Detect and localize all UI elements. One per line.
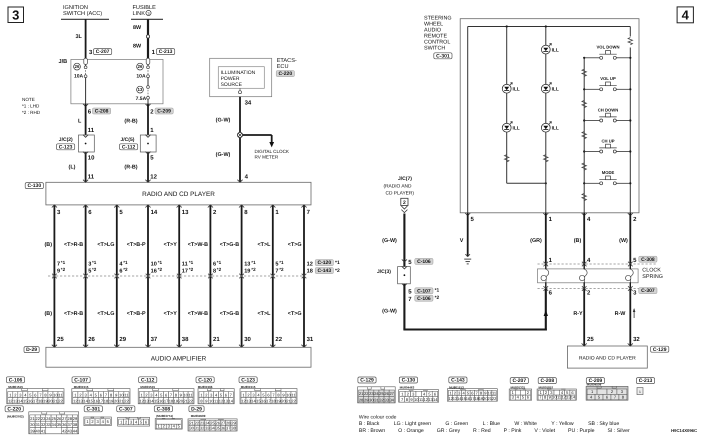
svg-text:13: 13: [138, 87, 143, 92]
svg-text:Wire colour code: Wire colour code: [359, 414, 397, 420]
circle node inside ETACS: [239, 91, 242, 94]
svg-text:C-213: C-213: [639, 378, 653, 384]
clock spring crossing marks top: [544, 262, 549, 264]
wire radio pin 1 to amplifier pin 22 (<T>L): [272, 205, 274, 347]
svg-text:1: 1: [639, 390, 641, 394]
svg-text:8W: 8W: [133, 25, 142, 31]
svg-text:<T>G-B: <T>G-B: [220, 242, 240, 248]
svg-text:(B): (B): [574, 238, 582, 244]
svg-text:16: 16: [151, 269, 157, 275]
connector pinout C-106: [6, 377, 24, 384]
svg-text:31: 31: [307, 336, 314, 343]
svg-text:*1: *1: [435, 288, 440, 294]
svg-text:*2: *2: [279, 267, 284, 272]
junction mark at C-120/C-143 crossing: [177, 274, 182, 276]
resistor ladder segment 3: [582, 132, 586, 139]
wire radio pin 2 to amplifier pin 21 (<T>W-B): [209, 205, 211, 347]
svg-text:25: 25: [57, 336, 64, 343]
svg-text:<T>W-B: <T>W-B: [188, 311, 208, 317]
svg-text:<T>LG: <T>LG: [97, 242, 114, 248]
illumination lamp ILL left lower: [502, 123, 511, 132]
svg-text:(G-W): (G-W): [216, 152, 231, 158]
svg-text:C-107: C-107: [417, 288, 431, 294]
svg-text:*1: *1: [123, 260, 128, 265]
illumination lamp ILL right top: [541, 45, 550, 54]
svg-text:*2: *2: [217, 267, 222, 272]
svg-text:MU804463: MU804463: [400, 385, 415, 389]
svg-text:BR : Brown O : Orange: BR : Brown O : Orange GR : Grey R : Red …: [359, 428, 630, 434]
svg-text:(L): (L): [69, 164, 76, 170]
fuse 26 10A (left): [85, 65, 87, 67]
svg-text:22: 22: [291, 398, 296, 403]
wire (G-W) lower run to clock spring: [403, 284, 405, 330]
svg-text:C-112: C-112: [122, 144, 136, 150]
svg-text:C-209: C-209: [157, 109, 171, 115]
wire R-W clock spring pin3 to radio pin 32: [629, 289, 631, 347]
svg-text:R-Y: R-Y: [573, 311, 583, 317]
svg-text:*2: *2: [251, 267, 256, 272]
svg-text:SWITCH (ACC): SWITCH (ACC): [63, 10, 102, 17]
svg-text:34: 34: [245, 100, 252, 107]
connector pinout C-120: [196, 377, 214, 384]
switch MODE: [583, 170, 631, 185]
svg-text:MODE: MODE: [602, 170, 615, 175]
resistor ladder bottom segment: [582, 193, 586, 200]
svg-text:26: 26: [88, 336, 95, 343]
svg-text:C-106: C-106: [9, 377, 23, 383]
svg-text:C-207: C-207: [512, 378, 526, 384]
svg-text:12: 12: [307, 261, 313, 267]
svg-text:*1: *1: [158, 260, 163, 265]
svg-text:CD PLAYER): CD PLAYER): [386, 191, 415, 197]
svg-text:D-29: D-29: [191, 406, 202, 412]
connector pinout C-112: [139, 377, 157, 384]
svg-text:V: V: [460, 238, 464, 244]
connector C-208 pin 6: [85, 104, 87, 183]
svg-text:VOL UP: VOL UP: [600, 76, 616, 81]
illumination lamp ILL right middle: [541, 84, 550, 93]
svg-text:<T>G: <T>G: [288, 242, 302, 248]
clock spring coil 1: [545, 264, 547, 269]
svg-text:<T>G-B: <T>G-B: [220, 311, 240, 317]
svg-text:C-143: C-143: [317, 268, 331, 274]
svg-text:C-308: C-308: [641, 257, 655, 263]
svg-text:(R-B): (R-B): [124, 164, 137, 170]
fuse 13 7.5A: [147, 78, 149, 86]
svg-text:ILL: ILL: [513, 87, 520, 93]
svg-text:22: 22: [124, 398, 129, 403]
svg-text:7.5A: 7.5A: [136, 96, 147, 102]
svg-text:34: 34: [389, 398, 394, 403]
svg-text:*1: *1: [92, 260, 97, 265]
svg-text:ILL: ILL: [552, 48, 559, 54]
svg-text:17: 17: [182, 269, 188, 275]
svg-text:10A: 10A: [136, 74, 146, 80]
inline connector circle on 8W wire: [146, 35, 149, 38]
radio and CD player box (left): [46, 182, 311, 205]
svg-text:RADIO AND CD PLAYER: RADIO AND CD PLAYER: [579, 355, 636, 361]
svg-text:C-301: C-301: [86, 406, 100, 412]
junction mark at C-120/C-143 crossing: [271, 274, 276, 276]
svg-text:7: 7: [275, 269, 278, 275]
svg-text:22: 22: [188, 398, 193, 403]
svg-text:(RADIO AND: (RADIO AND: [384, 184, 413, 190]
svg-text:R-W: R-W: [615, 311, 627, 317]
pin 5 rail and illumination top rail: [467, 27, 469, 213]
svg-text:NOTE: NOTE: [22, 97, 35, 102]
svg-text:MU804508: MU804508: [587, 383, 602, 387]
svg-text:*2: *2: [435, 295, 440, 301]
illumination lamp ILL right lower: [541, 123, 550, 132]
svg-text:AUDIO AMPLIFIER: AUDIO AMPLIFIER: [151, 355, 207, 362]
svg-text:(B): (B): [45, 311, 53, 317]
svg-text:C-301: C-301: [436, 53, 450, 59]
svg-text:5: 5: [88, 269, 91, 275]
svg-text:*1: *1: [61, 260, 66, 265]
left LED column wire: [506, 27, 508, 184]
steering wheel switch box: [460, 19, 639, 213]
wire 3L ignition to J/B: [85, 19, 87, 58]
svg-text:38: 38: [73, 422, 78, 427]
svg-text:*1: *1: [335, 260, 340, 266]
svg-text:C-307: C-307: [119, 406, 133, 412]
svg-text:B : Black LG : Light: B : Black LG : Light green G : Green L :…: [359, 421, 619, 427]
svg-text:C-112: C-112: [141, 377, 155, 383]
svg-text:DIGITAL CLOCK: DIGITAL CLOCK: [255, 149, 290, 154]
connector C-209 pin 2: [147, 104, 149, 183]
svg-text:9: 9: [57, 269, 60, 275]
switch CH DOWN: [583, 107, 631, 122]
switch box exit arrows and pins 5 1 4 2: [465, 213, 470, 216]
svg-text:C-213: C-213: [159, 49, 173, 55]
svg-text:14: 14: [151, 209, 158, 216]
svg-text:(B): (B): [45, 242, 53, 248]
svg-text:4: 4: [682, 8, 690, 23]
joint connector J/C(3): [398, 267, 411, 284]
ETACS-ECU box: [210, 58, 272, 96]
svg-text:CH DOWN: CH DOWN: [598, 107, 618, 112]
svg-text:J/C(7): J/C(7): [398, 176, 412, 182]
svg-text:*2: *2: [158, 267, 163, 272]
svg-text:SOURCE: SOURCE: [221, 82, 243, 88]
wire radio pin 6 to amplifier pin 26 (<T>R-B): [85, 205, 87, 347]
svg-text:CH UP: CH UP: [601, 138, 614, 143]
svg-text:3: 3: [12, 8, 19, 23]
svg-text:11: 11: [182, 261, 188, 267]
wire (W) switch pin2 to clock spring pin5: [629, 213, 631, 264]
svg-text:(W): (W): [619, 238, 628, 244]
junction mark at C-120/C-143 crossing: [146, 274, 151, 276]
svg-text:C-307: C-307: [641, 288, 655, 294]
radio entry arrows: [83, 180, 88, 183]
junction mark at C-120/C-143 crossing: [208, 274, 213, 276]
svg-text:22: 22: [492, 396, 497, 401]
direction arrow up on G-W wire: [544, 310, 548, 316]
svg-text:22: 22: [275, 336, 282, 343]
svg-text:<T>G: <T>G: [288, 311, 302, 317]
svg-text:(GR): (GR): [530, 238, 542, 244]
svg-text:C-106: C-106: [417, 296, 431, 302]
connector pinout C-307: [117, 406, 135, 413]
resistor ladder segment 4: [582, 163, 586, 170]
svg-text:14: 14: [433, 397, 438, 402]
connector pinout C-213: [636, 378, 654, 385]
junction mark at C-120/C-143 crossing: [52, 274, 57, 276]
svg-text:(MU803774): (MU803774): [156, 414, 173, 418]
svg-text:3L: 3L: [76, 34, 83, 40]
switch ladder left rail: [583, 58, 585, 213]
node dot right LED column: [545, 25, 547, 27]
junction mark at C-120/C-143 crossing: [302, 274, 307, 276]
svg-text:ECU: ECU: [277, 64, 289, 70]
junction mark at C-120/C-143 crossing: [115, 274, 120, 276]
svg-text:8W: 8W: [133, 44, 142, 50]
wire 8W fusible link to J/B: [147, 19, 149, 58]
svg-text:J/C(2): J/C(2): [59, 137, 73, 143]
svg-text:VOL DOWN: VOL DOWN: [597, 45, 620, 50]
svg-text:MU804599: MU804599: [191, 414, 206, 418]
svg-text:10: 10: [88, 155, 95, 162]
connector pinout C-123: [239, 377, 257, 384]
svg-text:38: 38: [231, 426, 236, 431]
svg-text:C-123: C-123: [59, 144, 73, 150]
svg-text:<T>Y: <T>Y: [164, 311, 178, 317]
svg-text:10A: 10A: [74, 74, 84, 80]
svg-text:ILL: ILL: [552, 87, 559, 93]
connector pinout C-130: [399, 377, 417, 384]
svg-text:27: 27: [389, 391, 394, 396]
wire radio pin 14 to amplifier pin 37 (<T>B-P): [147, 205, 149, 347]
svg-text:38: 38: [182, 336, 189, 343]
svg-text:13: 13: [182, 209, 189, 216]
svg-text:C-107: C-107: [74, 377, 88, 383]
svg-text:C-143: C-143: [451, 378, 465, 384]
illumination lamp ILL left upper: [502, 84, 511, 93]
svg-text:5: 5: [275, 261, 278, 267]
J/B exit arrows: [83, 104, 88, 107]
svg-text:14: 14: [229, 398, 234, 403]
svg-text:C-120: C-120: [198, 377, 212, 383]
branch joint to digital clock: [237, 132, 242, 137]
svg-text:CLOCK: CLOCK: [642, 268, 661, 274]
direction arrow up on R-W wire: [633, 309, 635, 318]
svg-text:C-220: C-220: [278, 71, 292, 77]
page number 3 box: [8, 7, 24, 23]
svg-text:6: 6: [119, 269, 122, 275]
svg-text:*2: *2: [92, 267, 97, 272]
clock spring bottom dashed connector line: [538, 288, 657, 290]
wire radio pin 8 to amplifier pin 30 (<T>G-B): [241, 205, 243, 347]
svg-text:7: 7: [57, 261, 60, 267]
svg-text:3: 3: [88, 261, 91, 267]
svg-text:26: 26: [138, 64, 143, 69]
svg-text:32: 32: [633, 336, 640, 343]
svg-text:(R-B): (R-B): [124, 119, 137, 125]
wire V to ground: [467, 213, 469, 257]
svg-text:C-123: C-123: [241, 377, 255, 383]
wire radio pin 5 to amplifier pin 29 (<T>LG): [116, 205, 118, 347]
junction block J/B box: [71, 59, 163, 103]
svg-text:SWITCH: SWITCH: [424, 46, 445, 52]
svg-text:*2: *2: [189, 267, 194, 272]
connector pinout C-107: [72, 377, 90, 384]
svg-text:11: 11: [88, 127, 95, 134]
svg-text:SPRING: SPRING: [642, 274, 663, 280]
svg-text:C-129: C-129: [360, 378, 374, 384]
wire (GR) switch pin1 to clock spring pin1: [545, 213, 547, 264]
clock spring box: [538, 269, 639, 283]
connector pinout C-129: [358, 377, 376, 384]
svg-text:C-207: C-207: [96, 49, 110, 55]
clock spring crossing marks bottom: [544, 286, 549, 288]
J/B entry connector right: [146, 58, 150, 64]
svg-text:<T>B-P: <T>B-P: [127, 242, 146, 248]
svg-text:<T>R-B: <T>R-B: [64, 311, 83, 317]
wire radio pin 13 to amplifier pin 38 (<T>Y): [178, 205, 180, 347]
svg-text:J/B: J/B: [59, 58, 68, 65]
junction mark at C-120/C-143 crossing: [239, 274, 244, 276]
joint connector J/C(5) C-112: [140, 135, 156, 152]
svg-text:C-129: C-129: [653, 347, 667, 353]
svg-text:(G-W): (G-W): [382, 238, 397, 244]
resistor right LED column: [544, 155, 548, 162]
connector pinout C-220: [5, 406, 23, 413]
svg-text:18: 18: [307, 269, 313, 275]
radio and cd player box (right): [567, 346, 647, 368]
svg-text:J/C(3): J/C(3): [377, 269, 391, 275]
svg-text:41: 41: [41, 429, 46, 434]
switch VOL DOWN: [583, 45, 631, 60]
page number 4 box: [677, 7, 693, 23]
bottom link LED columns: [507, 182, 546, 184]
clock spring coil 3: [629, 264, 631, 269]
svg-text:<T>B-P: <T>B-P: [127, 311, 146, 317]
svg-text:*2: *2: [123, 267, 128, 272]
svg-text:*1: *1: [251, 260, 256, 265]
svg-text:26: 26: [75, 64, 80, 69]
svg-text:C-220: C-220: [7, 406, 21, 412]
ground symbol: [465, 254, 470, 256]
connector pinout C-208: [538, 378, 556, 385]
svg-text:6: 6: [213, 261, 216, 267]
clock spring top dashed connector line: [538, 263, 657, 265]
svg-text:22: 22: [58, 398, 63, 403]
svg-text:(G-W): (G-W): [382, 308, 397, 314]
svg-text:<T>Y: <T>Y: [164, 242, 178, 248]
joint connector J/C(2) C-123: [79, 135, 95, 152]
svg-text:*1 : LHD: *1 : LHD: [22, 104, 40, 109]
svg-text:<T>L: <T>L: [258, 311, 272, 317]
svg-text:*1: *1: [217, 260, 222, 265]
svg-text:44: 44: [73, 429, 78, 434]
double branch arrow below J/C(7): [401, 206, 407, 209]
svg-text:11: 11: [88, 174, 95, 181]
svg-text:8: 8: [213, 269, 216, 275]
svg-text:*2: *2: [335, 268, 340, 274]
svg-text:C-130: C-130: [27, 183, 41, 189]
connector pinout C-308: [154, 406, 172, 413]
svg-text:<T>L: <T>L: [258, 242, 272, 248]
wire radio pin 3 to amplifier pin 25 ((B)): [53, 205, 55, 347]
switch CH UP: [583, 138, 631, 153]
right LED column wire / pin 1 rail: [545, 27, 547, 213]
node dot left LED column: [506, 25, 508, 27]
svg-text:<T>LG: <T>LG: [97, 311, 114, 317]
svg-text:14: 14: [571, 395, 576, 400]
svg-text:<T>R-B: <T>R-B: [64, 242, 83, 248]
svg-text:RV METER: RV METER: [255, 155, 279, 160]
wire ETACS pin 34 to radio pin 4 (G-W): [239, 97, 241, 183]
svg-text:C-208: C-208: [540, 378, 554, 384]
svg-text:10: 10: [151, 261, 157, 267]
wire R-Y clock spring pin2 to radio pin 25: [583, 289, 585, 347]
svg-text:12: 12: [150, 174, 157, 181]
svg-text:<T>W-B: <T>W-B: [188, 242, 208, 248]
svg-text:29: 29: [73, 416, 78, 421]
svg-text:25: 25: [587, 336, 594, 343]
connector pinout C-143: [449, 377, 467, 384]
illumination power source box: [218, 67, 264, 89]
wire (G-W) from J/C(7) to clock spring pin 6: [403, 214, 405, 267]
svg-text:*2 : RHD: *2 : RHD: [22, 110, 41, 115]
connector pinout D-29: [189, 406, 204, 413]
fuse 26 10A (right): [147, 65, 149, 67]
svg-text:D-29: D-29: [26, 347, 37, 353]
svg-text:13: 13: [244, 261, 250, 267]
svg-text:(G-W): (G-W): [216, 118, 231, 124]
J/B entry connector left: [84, 58, 88, 64]
wire branch to digital clock / rv meter: [243, 134, 272, 136]
junction mark at C-120/C-143 crossing: [83, 274, 88, 276]
resistor ladder segment 1: [582, 69, 586, 76]
connector pinout C-207: [510, 378, 528, 385]
switch VOL UP: [583, 76, 631, 91]
connector pinout C-301: [84, 406, 102, 413]
svg-text:2: 2: [403, 200, 406, 206]
svg-text:19: 19: [244, 269, 250, 275]
wire (B) switch pin4 to clock spring pin4: [583, 213, 585, 264]
svg-text:RADIO AND CD PLAYER: RADIO AND CD PLAYER: [142, 191, 215, 198]
svg-text:29: 29: [119, 336, 126, 343]
svg-text:C-130: C-130: [402, 378, 416, 384]
svg-text:21: 21: [213, 336, 220, 343]
svg-text:(MU803762): (MU803762): [7, 415, 24, 419]
resistor ladder segment 2: [582, 100, 586, 107]
inline connector C-120/C-143 dashed line: [48, 275, 304, 277]
svg-text:C-208: C-208: [95, 109, 109, 115]
connector pinout C-209: [586, 378, 604, 385]
svg-text:LINK: LINK: [133, 11, 146, 17]
audio amplifier box: [46, 347, 311, 367]
clock spring coil 2: [583, 264, 585, 269]
svg-text:*1: *1: [189, 260, 194, 265]
svg-text:37: 37: [151, 336, 158, 343]
resistor top of switch ladder: [629, 27, 631, 213]
svg-text:*2: *2: [61, 267, 66, 272]
svg-text:C-308: C-308: [157, 406, 171, 412]
svg-text:H9C14X096C: H9C14X096C: [671, 428, 697, 433]
svg-text:ILL: ILL: [552, 126, 559, 132]
svg-text:30: 30: [244, 336, 251, 343]
wire radio pin 7 to amplifier pin 31 (<T>G): [303, 205, 305, 347]
svg-text:C-120: C-120: [317, 260, 331, 266]
svg-text:J/C(5): J/C(5): [121, 137, 135, 143]
resistor left LED column: [505, 155, 509, 162]
svg-text:*1: *1: [279, 260, 284, 265]
svg-text:ILL: ILL: [513, 126, 520, 132]
svg-text:C-106: C-106: [417, 259, 431, 265]
